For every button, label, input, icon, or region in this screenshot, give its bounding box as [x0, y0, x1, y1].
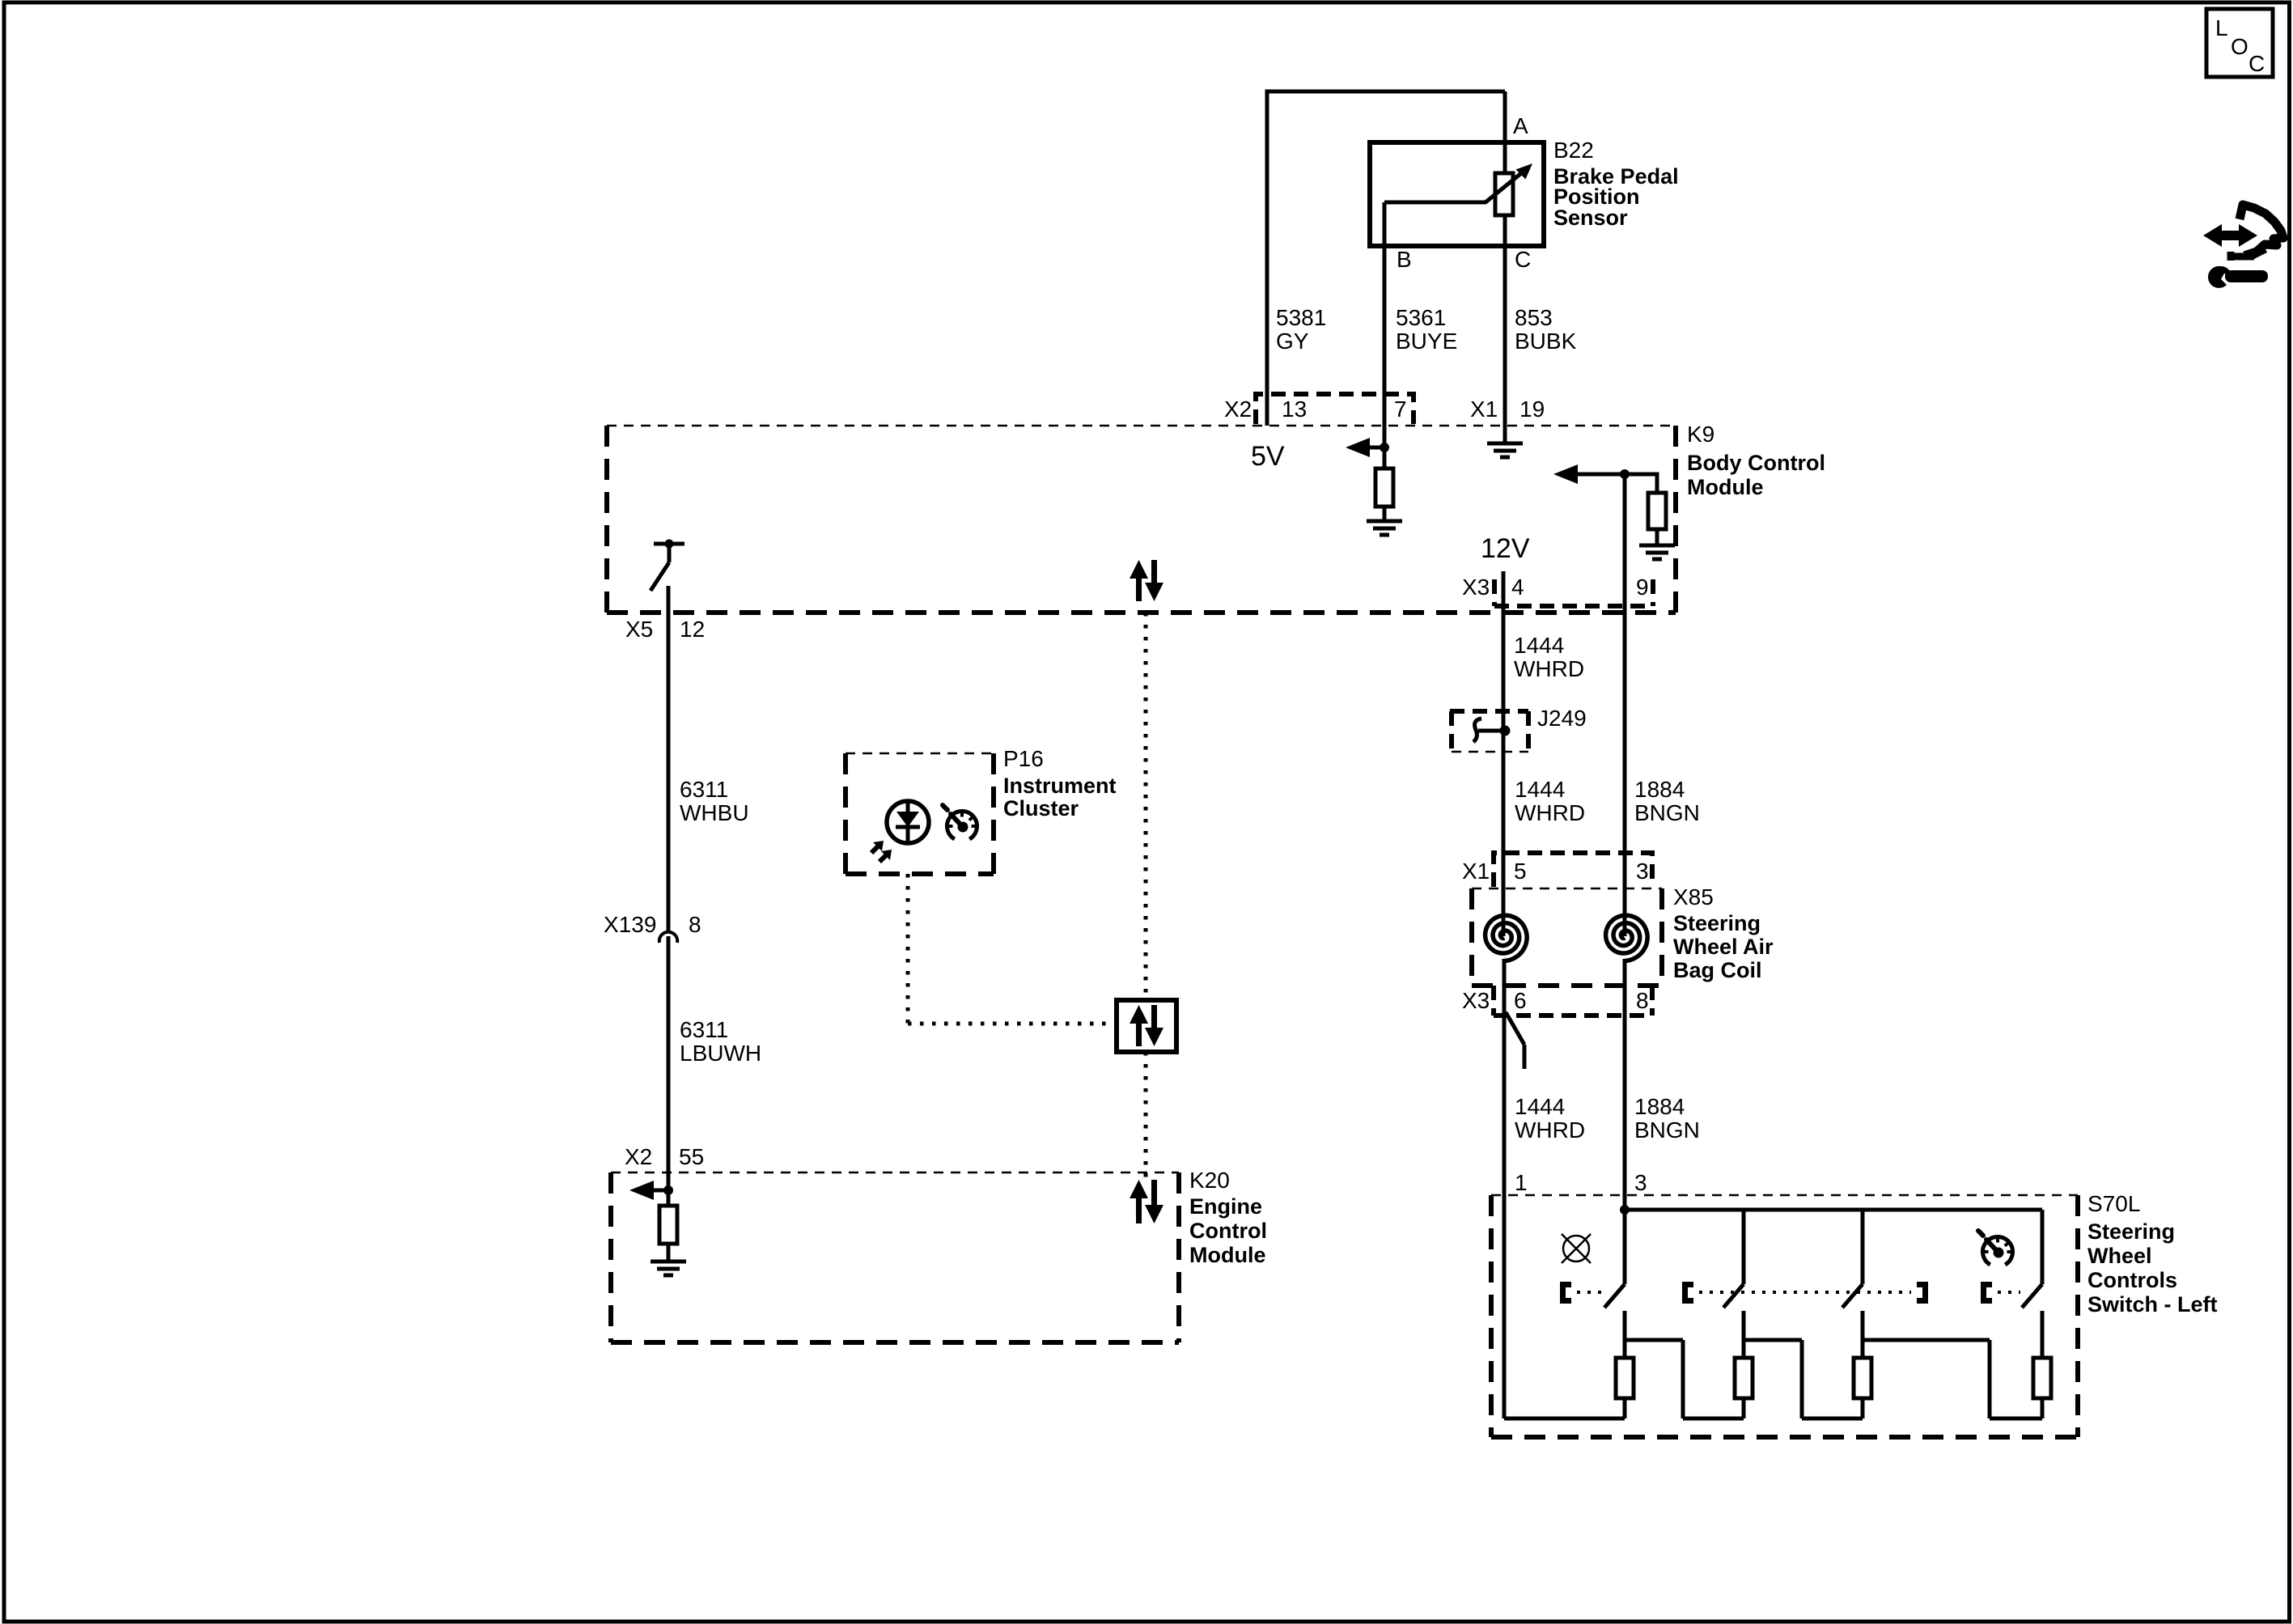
X139 pin labels: [604, 912, 701, 937]
resistor 3: [1854, 1340, 1871, 1418]
actuator link 1: [1577, 1291, 1603, 1294]
svg-text:6: 6: [1514, 988, 1527, 1013]
K20 name: [1189, 1168, 1267, 1267]
svg-text:S70L: S70L: [2087, 1191, 2140, 1216]
svg-text:X3: X3: [1462, 988, 1490, 1013]
BCM signal arrow right: [1553, 464, 1625, 484]
junction node at pin 7: [1380, 443, 1389, 452]
svg-text:Steering: Steering: [2087, 1219, 2175, 1244]
wire 1884 BNGN: [1623, 474, 1627, 936]
svg-text:X1: X1: [1470, 396, 1498, 422]
svg-text:X139: X139: [604, 912, 656, 937]
wire 5361 BUYE (pin B): [1383, 202, 1387, 447]
telltale LED icon: [871, 801, 929, 862]
wire junction to resistor: [1625, 474, 1657, 493]
serial data arrows (K20): [1139, 1180, 1155, 1223]
svg-text:P16: P16: [1003, 746, 1044, 771]
gauge icon (P16): [943, 805, 977, 839]
connector X3 box at X85: [1494, 986, 1652, 1016]
svg-text:X85: X85: [1673, 884, 1714, 910]
wire 1444 WHRD lower: [1503, 959, 1507, 1418]
resistor in K20: [659, 1206, 677, 1244]
svg-text:5: 5: [1514, 859, 1527, 884]
resistor 1: [1616, 1340, 1634, 1418]
svg-text:Wheel: Wheel: [2087, 1244, 2152, 1268]
potentiometer wiper arrow: [1384, 163, 1532, 202]
connector X2 pin labels at K20: [625, 1144, 704, 1169]
svg-text:X5: X5: [625, 617, 653, 642]
svg-text:4: 4: [1511, 575, 1524, 600]
splice symbol: [1473, 719, 1511, 742]
svg-text:3: 3: [1636, 859, 1649, 884]
ground (K20): [651, 1261, 686, 1275]
label 1444 WHRD (lower): [1515, 1094, 1585, 1143]
svg-text:J249: J249: [1537, 706, 1587, 731]
P16 name: [1003, 746, 1117, 820]
junction node pin 55: [663, 1185, 673, 1195]
switch blade at X3 pin 6: [1506, 1012, 1524, 1069]
svg-text:55: 55: [679, 1144, 704, 1169]
wire 6311 WHBU/LBUWH: [667, 586, 671, 1206]
svg-text:Steering: Steering: [1673, 911, 1761, 935]
harness routing icon: [2203, 205, 2283, 288]
label 1444 WHRD (mid): [1515, 777, 1585, 825]
label 1884 BNGN (lower): [1634, 1094, 1700, 1143]
switch 1: [1604, 1210, 1625, 1340]
ground at pin 19: [1487, 443, 1523, 457]
svg-text:X2: X2: [1224, 396, 1252, 422]
svg-text:Module: Module: [1189, 1243, 1266, 1267]
wire 1884 BNGN lower: [1623, 959, 1627, 1284]
svg-text:853: 853: [1515, 305, 1553, 330]
label 853 BUBK: [1515, 305, 1577, 354]
svg-text:6311: 6311: [680, 777, 728, 802]
dotted serial link from P16: [908, 874, 1117, 1024]
serial data symbol box: [1117, 1000, 1176, 1052]
svg-text:Module: Module: [1687, 475, 1764, 499]
svg-text:1444: 1444: [1515, 1094, 1565, 1119]
svg-text:12V: 12V: [1481, 533, 1530, 564]
dotted serial bus vertical: [1144, 613, 1148, 1177]
connector X3 box at K9: [1494, 579, 1653, 606]
svg-text:7: 7: [1394, 396, 1407, 422]
wire to pin A: [1503, 91, 1507, 173]
svg-text:Cluster: Cluster: [1003, 796, 1079, 820]
label 5361 BUYE: [1396, 305, 1457, 354]
label 1444 WHRD (upper): [1514, 633, 1584, 681]
sensor B22 box: [1370, 142, 1544, 246]
wire pin7 to resistor: [1383, 447, 1387, 469]
svg-text:C: C: [2248, 51, 2265, 76]
svg-text:9: 9: [1636, 575, 1649, 600]
svg-text:X3: X3: [1462, 575, 1490, 600]
svg-text:13: 13: [1282, 396, 1307, 422]
svg-text:8: 8: [689, 912, 701, 937]
svg-text:L: L: [2215, 15, 2228, 40]
K20 box: [611, 1172, 1179, 1342]
switch 3: [1842, 1210, 1863, 1340]
svg-text:1444: 1444: [1515, 777, 1565, 802]
svg-text:1: 1: [1515, 1170, 1528, 1195]
svg-text:8: 8: [1636, 988, 1649, 1013]
ground (K9 right branch): [1639, 545, 1675, 559]
switch 4: [2022, 1210, 2042, 1340]
svg-text:1444: 1444: [1514, 633, 1564, 658]
svg-text:K20: K20: [1189, 1168, 1230, 1193]
label 6311 WHBU: [680, 777, 749, 825]
svg-text:WHBU: WHBU: [680, 800, 749, 825]
actuator bracket 4: [1984, 1285, 1993, 1301]
X85 box: [1472, 888, 1662, 986]
svg-text:Switch - Left: Switch - Left: [2087, 1292, 2218, 1317]
lamp symbol: [1562, 1234, 1591, 1263]
svg-text:6311: 6311: [680, 1017, 728, 1042]
wire resistor to ground: [1655, 529, 1659, 544]
K20 signal arrow: [629, 1181, 668, 1200]
svg-text:B22: B22: [1553, 138, 1594, 163]
actuator bracket 2: [1685, 1285, 1694, 1301]
label 5381 GY: [1276, 305, 1326, 354]
switch 2: [1723, 1210, 1744, 1340]
svg-text:WHRD: WHRD: [1515, 800, 1585, 825]
connector X2 box at K9: [1256, 394, 1414, 424]
svg-text:WHRD: WHRD: [1514, 656, 1584, 681]
svg-text:C: C: [1515, 247, 1531, 272]
svg-text:Engine: Engine: [1189, 1194, 1262, 1219]
svg-text:Wheel Air: Wheel Air: [1673, 935, 1774, 959]
actuator link 4: [1998, 1291, 2020, 1294]
wire resistor to ground: [1383, 507, 1387, 519]
svg-text:X1: X1: [1462, 859, 1490, 884]
svg-text:Control: Control: [1189, 1219, 1267, 1243]
svg-text:Controls: Controls: [2087, 1268, 2177, 1292]
svg-text:3: 3: [1634, 1170, 1647, 1195]
wire resistor to ground: [667, 1244, 671, 1260]
B22 name: [1553, 138, 1679, 230]
svg-text:5361: 5361: [1396, 305, 1446, 330]
connector X3 pin labels at X85: [1462, 988, 1649, 1013]
resistor in K9 (12V branch): [1648, 493, 1666, 529]
svg-text:K9: K9: [1687, 422, 1714, 447]
connector X5 pin labels: [625, 617, 705, 642]
label 6311 LBUWH: [680, 1017, 761, 1066]
connector X1 pin labels: [1462, 859, 1649, 884]
wire 1444 WHRD: [1502, 571, 1506, 936]
actuator bracket 1: [1563, 1285, 1572, 1301]
svg-text:Instrument: Instrument: [1003, 774, 1117, 798]
svg-text:Bag Coil: Bag Coil: [1673, 958, 1762, 982]
svg-text:O: O: [2231, 34, 2248, 59]
J249 splice box: [1450, 711, 1528, 752]
connector X2 pin labels: [1224, 396, 1407, 422]
return bus segments: [1504, 1417, 2042, 1421]
svg-text:BNGN: BNGN: [1634, 1117, 1700, 1143]
serial data arrows (K9): [1139, 560, 1155, 601]
junction node bus: [1620, 1205, 1630, 1215]
svg-text:X2: X2: [625, 1144, 652, 1169]
resistor 2: [1735, 1340, 1753, 1418]
potentiometer element: [1495, 173, 1513, 215]
K9 box: [607, 426, 1676, 613]
supply bus inside S70L: [1625, 1208, 2042, 1212]
X85 name: [1673, 884, 1774, 982]
LOC legend box: [2206, 9, 2273, 77]
junction node 1884 feed: [1620, 469, 1630, 479]
svg-text:1884: 1884: [1634, 1094, 1685, 1119]
svg-text:Body Control: Body Control: [1687, 451, 1825, 475]
svg-text:A: A: [1513, 113, 1528, 138]
P16 box: [846, 753, 994, 874]
actuator link 2-3: [1699, 1291, 1911, 1294]
wire 5381 GY top run: [1267, 90, 1505, 426]
connector X1 box at X85: [1494, 853, 1652, 887]
connector X1 pin labels: [1470, 396, 1545, 422]
coil spiral left: [1486, 915, 1528, 960]
wire 853 BUBK (pin C): [1503, 215, 1507, 442]
K9 name: [1687, 422, 1825, 499]
svg-text:1884: 1884: [1634, 777, 1685, 802]
svg-text:B: B: [1397, 247, 1412, 272]
S70L box: [1491, 1195, 2078, 1437]
svg-text:Sensor: Sensor: [1553, 206, 1628, 230]
gauge icon (S70L): [1978, 1231, 2013, 1265]
svg-text:WHRD: WHRD: [1515, 1117, 1585, 1143]
svg-text:5V: 5V: [1251, 441, 1285, 472]
coil spiral right: [1606, 915, 1648, 960]
svg-text:BUBK: BUBK: [1515, 329, 1577, 354]
resistor ladder jogs: [1625, 1340, 1990, 1418]
S70L name: [2087, 1191, 2218, 1317]
svg-text:GY: GY: [1276, 329, 1309, 354]
switch inside K9 (brake signal): [651, 540, 685, 592]
5V signal arrow: [1346, 438, 1384, 457]
resistor in K9 (5V pull): [1375, 469, 1393, 507]
svg-text:5381: 5381: [1276, 305, 1326, 330]
label 1884 BNGN (mid): [1634, 777, 1700, 825]
connector X3 pin labels: [1462, 575, 1649, 600]
svg-text:BNGN: BNGN: [1634, 800, 1700, 825]
svg-text:LBUWH: LBUWH: [680, 1041, 761, 1066]
svg-text:BUYE: BUYE: [1396, 329, 1457, 354]
resistor 4: [2033, 1340, 2051, 1418]
svg-text:12: 12: [680, 617, 705, 642]
ground (K9 5V branch): [1367, 521, 1402, 535]
actuator bracket 3 (closing): [1917, 1285, 1926, 1301]
inline connector X139: [659, 932, 677, 943]
svg-text:19: 19: [1519, 396, 1545, 422]
